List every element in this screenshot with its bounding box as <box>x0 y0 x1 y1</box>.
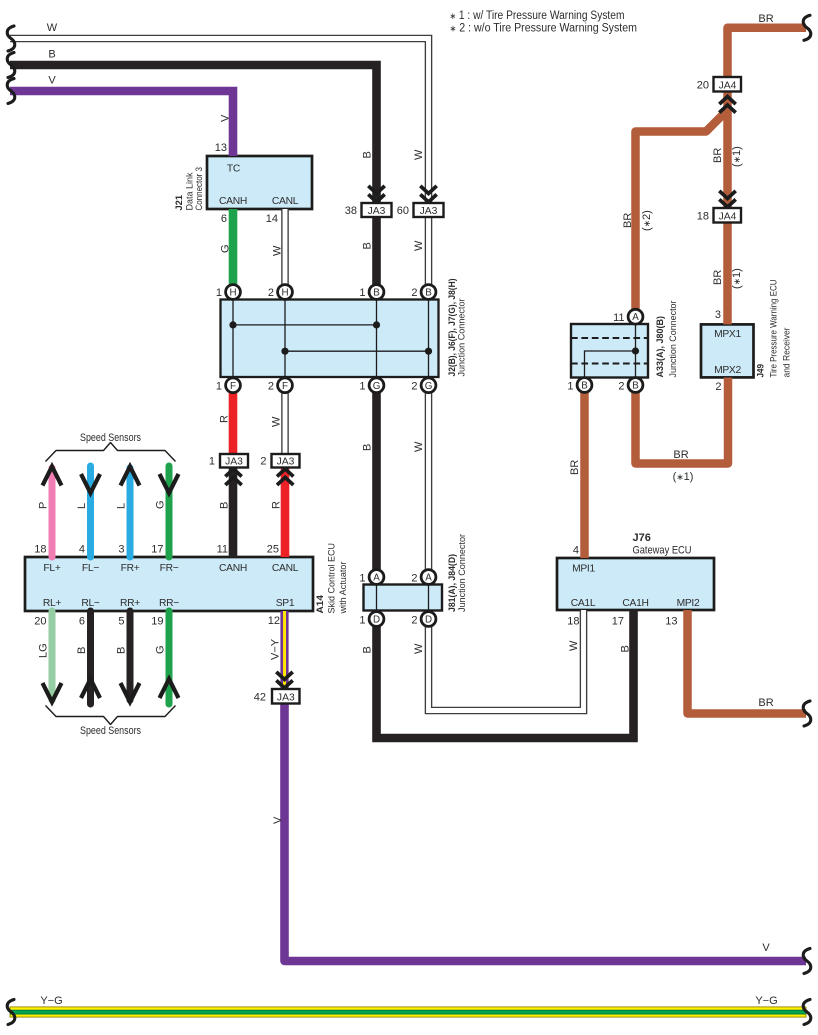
svg-text:2: 2 <box>268 381 274 393</box>
wire W J2 pin 2G to J81 pin 2A <box>425 385 433 577</box>
svg-text:A: A <box>373 573 380 584</box>
svg-text:W: W <box>47 22 58 34</box>
note asterisk legend <box>450 10 638 35</box>
svg-text:BR: BR <box>758 697 773 709</box>
wire G speed sensor RR- <box>166 611 173 704</box>
svg-text:∗ 1 : w/ Tire Pressure Warning: ∗ 1 : w/ Tire Pressure Warning System <box>450 10 625 22</box>
svg-text:MPI1: MPI1 <box>572 564 595 575</box>
svg-text:14: 14 <box>266 213 278 225</box>
svg-text:20: 20 <box>34 616 46 628</box>
svg-text:11: 11 <box>613 312 624 324</box>
svg-text:A33(A), J80(B): A33(A), J80(B) <box>655 316 666 378</box>
svg-text:J21: J21 <box>174 194 185 210</box>
svg-text:JA4: JA4 <box>719 81 737 92</box>
svg-text:B: B <box>76 647 88 654</box>
svg-text:V: V <box>48 75 56 87</box>
pin 1F J2 <box>226 378 241 393</box>
svg-text:G: G <box>155 645 167 654</box>
junction connector J2 box <box>221 300 439 378</box>
arrow down RL+ <box>43 683 62 702</box>
svg-text:25: 25 <box>267 544 279 556</box>
pin numbers J81 <box>359 573 417 627</box>
pin numbers A33 bottom <box>567 381 624 393</box>
svg-text:LG: LG <box>38 643 50 658</box>
svg-text:L: L <box>76 503 88 509</box>
pin numbers A14 top <box>34 544 279 556</box>
svg-text:G: G <box>425 381 433 392</box>
svg-text:R: R <box>271 501 283 509</box>
svg-text:B: B <box>620 645 632 652</box>
label BR *1 top <box>712 146 743 167</box>
labels A14 bottom row <box>43 598 295 609</box>
svg-text:1: 1 <box>359 381 365 393</box>
labels A14 top row <box>43 563 298 574</box>
svg-text:∗ 2 : w/o Tire Pressure Warnin: ∗ 2 : w/o Tire Pressure Warning System <box>450 23 638 35</box>
svg-text:B: B <box>362 444 374 451</box>
svg-text:2: 2 <box>268 287 274 299</box>
svg-text:B: B <box>116 647 128 654</box>
pin 1A J81 <box>369 570 384 585</box>
svg-text:BR: BR <box>622 213 634 228</box>
svg-text:1: 1 <box>359 287 365 299</box>
arrow down RR+ <box>121 683 140 702</box>
labels J76 bottom row <box>571 598 700 609</box>
pin 1B A33 <box>577 378 592 393</box>
node dot J2 line2 right <box>425 348 432 355</box>
pin 1B J2 <box>369 285 384 300</box>
label J49 rotated <box>756 279 793 377</box>
svg-text:H: H <box>281 288 288 299</box>
pin numbers J76 bottom <box>567 616 677 628</box>
svg-text:F: F <box>282 381 288 392</box>
svg-text:B: B <box>362 151 374 158</box>
wire V-Y A14 SP1 to 42 JA3 <box>280 611 288 689</box>
svg-text:1: 1 <box>209 456 215 468</box>
node dot J2 line1 left <box>229 321 236 328</box>
svg-text:BR: BR <box>758 13 773 25</box>
pin numbers J2 bottom <box>216 381 418 393</box>
svg-text:JA3: JA3 <box>225 457 243 468</box>
svg-text:RR+: RR+ <box>120 598 140 609</box>
svg-text:Junction Connector: Junction Connector <box>457 299 468 377</box>
arrow down FR- <box>160 474 179 493</box>
svg-text:F: F <box>230 381 236 392</box>
wire V top horizontal from left edge to J21 pin 13 <box>10 91 233 156</box>
svg-text:B: B <box>362 242 374 249</box>
svg-text:38: 38 <box>345 205 357 217</box>
pin 1H J2 <box>226 285 241 300</box>
svg-text:BR: BR <box>673 449 688 461</box>
svg-text:2: 2 <box>715 381 721 393</box>
ECU J76 Gateway ECU box <box>557 558 714 610</box>
wire BR J76 MPI2 to right edge <box>688 610 807 714</box>
arrow up FR+ <box>121 467 140 486</box>
svg-text:and Receiver: and Receiver <box>782 328 793 378</box>
wire G speed sensor FR- <box>166 466 173 557</box>
wire B 38 JA3 to J2 pin 1B <box>372 217 381 292</box>
svg-text:18: 18 <box>34 544 46 556</box>
svg-text:Y−G: Y−G <box>40 995 62 1007</box>
svg-text:JA3: JA3 <box>277 457 295 468</box>
svg-text:FR−: FR− <box>160 563 179 574</box>
svg-text:Junction Connector: Junction Connector <box>457 534 468 612</box>
pin 2G J2 <box>421 378 436 393</box>
wire W top horizontal from left edge to 60 JA3 <box>10 39 429 204</box>
wire BR A33 pin 2B to J49 MPX2 <box>636 378 729 464</box>
label J81 rotated <box>447 534 468 612</box>
svg-text:D: D <box>373 615 380 626</box>
svg-text:MPX1: MPX1 <box>714 329 741 340</box>
svg-text:13: 13 <box>665 616 677 628</box>
svg-text:B: B <box>425 288 432 299</box>
connector 2 JA3 <box>260 454 299 485</box>
svg-text:V: V <box>762 942 770 954</box>
pin 2B J2 <box>421 285 436 300</box>
wire BR 18 JA4 to J49 MPX1 <box>723 222 732 324</box>
svg-text:2: 2 <box>260 456 266 468</box>
connector 38 JA3 <box>345 186 392 217</box>
wire W J2 pin 2F to 2 JA3 <box>281 385 289 453</box>
wire B speed sensor RL- <box>87 611 94 704</box>
wire B top horizontal from left edge to 38 JA3 <box>10 65 377 203</box>
svg-text:1: 1 <box>359 573 365 585</box>
node dot A33 <box>632 347 639 354</box>
svg-text:SP1: SP1 <box>276 598 295 609</box>
svg-text:Skid Control ECU: Skid Control ECU <box>327 543 338 614</box>
svg-text:(∗2): (∗2) <box>641 210 653 231</box>
svg-text:Connector 3: Connector 3 <box>194 167 205 211</box>
pin 2F J2 <box>278 378 293 393</box>
svg-text:JA3: JA3 <box>368 206 386 217</box>
svg-text:18: 18 <box>567 616 579 628</box>
svg-text:CANL: CANL <box>272 196 299 207</box>
svg-text:B: B <box>219 502 231 509</box>
ECU A14 Skid Control ECU box <box>25 557 313 611</box>
svg-text:G: G <box>155 500 167 509</box>
svg-text:4: 4 <box>79 544 85 556</box>
pin 2B A33 <box>628 378 643 393</box>
svg-text:V: V <box>220 114 232 122</box>
wire B speed sensor RR+ <box>127 611 134 700</box>
arrow up FL+ <box>43 467 62 486</box>
svg-text:J76: J76 <box>633 532 651 544</box>
svg-text:JA3: JA3 <box>420 206 438 217</box>
wire LG speed sensor RL+ <box>49 611 56 700</box>
svg-text:J49: J49 <box>756 364 767 378</box>
svg-text:RL+: RL+ <box>43 598 62 609</box>
svg-text:5: 5 <box>118 616 124 628</box>
svg-text:(∗1): (∗1) <box>673 471 694 483</box>
svg-text:W: W <box>271 416 283 427</box>
svg-text:with Actuator: with Actuator <box>338 562 349 615</box>
svg-text:L: L <box>116 503 128 509</box>
wire BR branch *2 to A33 pin A <box>636 110 728 311</box>
svg-text:Tire Pressure Warning ECU: Tire Pressure Warning ECU <box>769 279 780 377</box>
svg-text:19: 19 <box>151 616 163 628</box>
label A33 rotated <box>655 301 679 378</box>
svg-text:B: B <box>581 381 588 392</box>
svg-text:B: B <box>48 49 55 61</box>
svg-text:MPI2: MPI2 <box>677 598 700 609</box>
svg-text:A: A <box>632 312 639 323</box>
svg-text:MPX2: MPX2 <box>714 365 741 376</box>
svg-text:3: 3 <box>118 544 124 556</box>
label BR *2 <box>622 210 653 231</box>
svg-text:6: 6 <box>221 213 227 225</box>
wire B J2 pin 1G to J81 pin 1A <box>372 385 381 577</box>
svg-text:2: 2 <box>411 573 417 585</box>
curl B left <box>7 53 15 78</box>
svg-text:JA3: JA3 <box>277 693 295 704</box>
svg-text:CA1H: CA1H <box>622 598 648 609</box>
svg-text:FL−: FL− <box>82 563 99 574</box>
svg-text:60: 60 <box>397 205 409 217</box>
svg-text:W: W <box>413 643 425 654</box>
arrow down FL- <box>81 474 100 493</box>
svg-text:17: 17 <box>151 544 163 556</box>
svg-text:B: B <box>373 288 380 299</box>
svg-text:1: 1 <box>567 381 573 393</box>
connector 18 JA4 <box>697 191 741 223</box>
svg-text:TC: TC <box>227 164 241 175</box>
wire L speed sensor FR+ <box>127 468 134 557</box>
node dot J2 line1 right <box>373 321 380 328</box>
svg-text:CA1L: CA1L <box>571 598 596 609</box>
brace top <box>46 443 176 462</box>
curl V left <box>7 79 15 104</box>
svg-text:BR: BR <box>712 270 724 285</box>
junction connector A33 box <box>571 324 648 378</box>
connector 60 JA3 <box>397 186 444 217</box>
arrow up RL- <box>81 679 100 698</box>
svg-text:(∗1): (∗1) <box>731 268 743 289</box>
svg-text:W: W <box>568 640 580 651</box>
curl YG right <box>803 1000 811 1025</box>
svg-text:B: B <box>362 646 374 653</box>
svg-text:Y−G: Y−G <box>755 995 777 1007</box>
junction connector J81 box <box>364 585 443 611</box>
svg-text:CANL: CANL <box>272 563 299 574</box>
pin numbers A14 bottom <box>34 615 280 628</box>
wire BR A33 pin 1B to J76 MPI1 <box>580 385 589 558</box>
svg-text:1: 1 <box>216 381 222 393</box>
svg-text:20: 20 <box>697 80 709 92</box>
svg-text:W: W <box>413 149 425 160</box>
svg-text:Junction Connector: Junction Connector <box>668 301 679 378</box>
svg-text:(∗1): (∗1) <box>731 146 743 167</box>
brace bottom <box>46 706 176 725</box>
curl BR right <box>803 701 811 726</box>
svg-text:D: D <box>425 615 432 626</box>
pin 2A J81 <box>421 570 436 585</box>
svg-text:13: 13 <box>215 142 227 154</box>
svg-text:6: 6 <box>79 616 85 628</box>
connector 42 JA3 <box>254 672 300 704</box>
wire R 2 JA3 to A14 CANL <box>281 467 290 557</box>
svg-text:Gateway ECU: Gateway ECU <box>633 545 692 557</box>
node dot J2 line2 left <box>281 348 288 355</box>
svg-text:1: 1 <box>359 615 365 627</box>
curl YG left <box>7 1000 15 1025</box>
wire BR top right 20 JA4 to edge <box>728 28 807 77</box>
label BR *1 lower <box>712 268 743 289</box>
wire W J81 pin 2D to J76 CA1L <box>429 610 584 711</box>
svg-text:A: A <box>425 573 432 584</box>
svg-text:V: V <box>272 816 284 824</box>
connector J21 Data Link Connector 3 box <box>207 156 312 209</box>
label J21 rotated <box>174 167 205 211</box>
curl W left <box>7 26 15 51</box>
ECU J49 box <box>701 324 754 377</box>
wire B 1 JA3 to A14 CANH <box>229 467 238 557</box>
svg-text:4: 4 <box>573 545 579 557</box>
svg-text:G: G <box>220 244 232 253</box>
svg-text:BR: BR <box>569 460 581 475</box>
pin numbers J2 top <box>216 287 418 299</box>
wire W J21 CANL to J2 pin 2H <box>281 209 289 292</box>
svg-text:H: H <box>229 288 236 299</box>
svg-text:1: 1 <box>216 287 222 299</box>
label A14 rotated <box>315 543 349 615</box>
svg-text:FL+: FL+ <box>43 563 60 574</box>
wire W 60 JA3 to J2 pin 2B <box>425 217 433 292</box>
wire BR 20 JA4 to 18 JA4 <box>723 92 732 209</box>
svg-text:3: 3 <box>715 309 721 321</box>
svg-text:2: 2 <box>411 381 417 393</box>
svg-text:RL−: RL− <box>81 598 100 609</box>
wire P speed sensor FL+ <box>49 468 56 557</box>
svg-text:12: 12 <box>268 615 280 627</box>
svg-text:BR: BR <box>712 148 724 163</box>
svg-text:11: 11 <box>217 544 228 556</box>
svg-text:R: R <box>219 415 231 423</box>
pin 2H J2 <box>278 285 293 300</box>
connector 1 JA3 <box>209 454 248 485</box>
svg-text:B: B <box>632 381 639 392</box>
svg-text:JA4: JA4 <box>719 212 737 223</box>
pin A A33 <box>628 309 643 324</box>
svg-text:W: W <box>413 240 425 251</box>
wire Y-G bottom <box>10 1007 806 1017</box>
svg-text:W: W <box>413 441 425 452</box>
svg-text:RR−: RR− <box>159 598 179 609</box>
pin 2D J81 <box>421 612 436 627</box>
wire G J21 CANH to J2 pin 1H <box>229 209 238 292</box>
svg-text:2: 2 <box>411 615 417 627</box>
svg-text:A14: A14 <box>315 594 326 613</box>
curl BR top right <box>803 15 811 40</box>
svg-text:FR+: FR+ <box>121 563 140 574</box>
arrow up RR- <box>160 679 179 698</box>
pin 1D J81 <box>369 612 384 627</box>
svg-text:P: P <box>38 502 50 509</box>
svg-text:17: 17 <box>612 616 624 628</box>
curl V right <box>803 949 811 974</box>
svg-text:2: 2 <box>618 381 624 393</box>
pin 1G J2 <box>369 378 384 393</box>
svg-text:CANH: CANH <box>219 563 247 574</box>
wire V 42 JA3 to right edge <box>285 704 807 962</box>
connector 20 JA4 <box>697 77 741 113</box>
svg-text:Speed Sensors: Speed Sensors <box>80 725 141 737</box>
svg-text:W: W <box>272 245 284 256</box>
svg-text:V−Y: V−Y <box>270 638 282 660</box>
label J2 rotated <box>447 279 468 377</box>
wire B J81 pin 1D to J76 CA1H <box>377 610 634 738</box>
svg-text:42: 42 <box>254 692 266 704</box>
label J76 title <box>633 532 692 557</box>
svg-text:G: G <box>373 381 381 392</box>
svg-text:2: 2 <box>411 287 417 299</box>
svg-text:CANH: CANH <box>219 196 247 207</box>
svg-text:18: 18 <box>697 211 709 223</box>
wire R J2 pin 1F to 1 JA3 <box>229 385 238 453</box>
wire L speed sensor FL- <box>87 466 94 557</box>
